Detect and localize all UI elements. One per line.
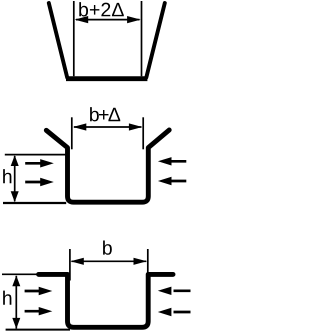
force arrow left 1 [25,159,54,167]
force arrow right 2 [158,308,191,316]
die wall right slant [146,3,165,78]
extension line right (b+2delta) [141,1,143,76]
force arrow right 1 [158,157,186,165]
h top extension line [5,154,66,156]
dimension arrowhead left [73,123,86,130]
label h (middle) [3,169,11,183]
h arrowhead up [12,276,20,287]
die bottom line [66,76,147,81]
dimension line b+delta [74,126,141,128]
extension line left (b+2delta) [73,1,75,76]
force arrow left 2 [25,178,54,186]
h dimension line [14,156,16,201]
force arrow left 1 [25,287,53,295]
U-channel with flanges [39,274,173,327]
dimension arrowhead right [134,258,147,265]
h dimension line [15,276,17,329]
dimension arrowhead right [129,123,142,130]
extension line left (b) [69,249,71,281]
label b+delta [90,107,99,121]
force arrow right 2 [158,177,186,185]
extension line right (b+delta) [142,117,144,149]
die wall left slant [49,3,67,78]
h top extension line [2,273,37,275]
dimension line b [72,260,147,262]
force arrow left 2 [25,307,53,315]
dimension line b+2delta [76,19,140,21]
dimension arrowhead left [70,258,83,265]
h arrowhead down [12,318,20,329]
U-channel with flared lips [46,130,169,202]
dimension arrowhead right [127,16,141,23]
label b+2delta [79,2,88,16]
dimension arrowhead left [75,16,89,23]
h arrowhead up [11,155,19,166]
extension line right (b) [147,249,149,281]
label b [103,240,112,254]
force arrow right 1 [158,287,191,295]
label h (bottom) [3,291,11,305]
extension line left (b+delta) [71,117,73,149]
h arrowhead down [11,191,19,202]
h bottom extension line [3,202,66,204]
h bottom extension line [6,329,70,331]
